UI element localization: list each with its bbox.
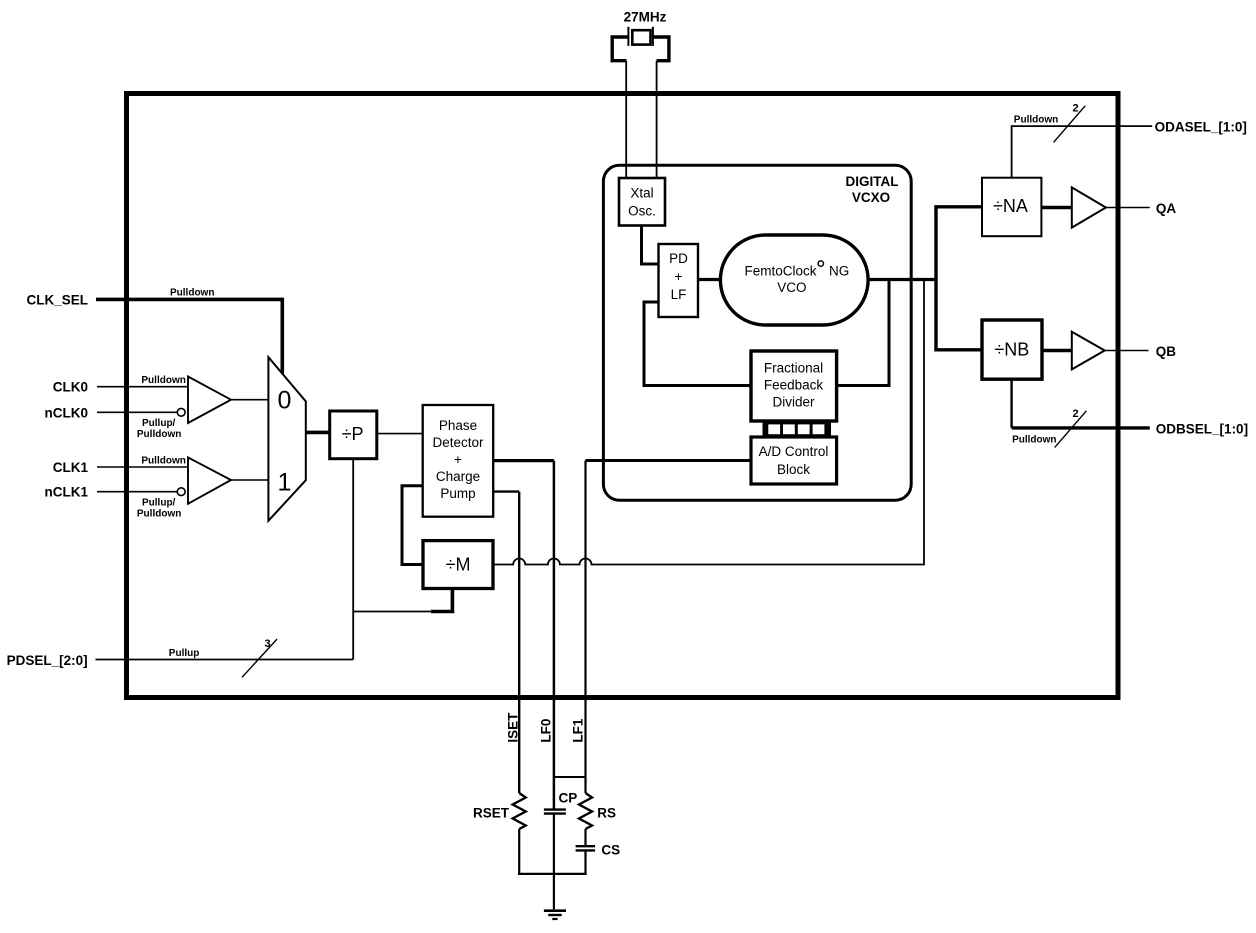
svg-text:÷NB: ÷NB [994,340,1029,360]
wire nCLK1 [97,491,177,493]
svg-text:nCLK0: nCLK0 [45,405,89,420]
svg-text:PDSEL_[2:0]: PDSEL_[2:0] [7,653,88,668]
wire CS to bottom [584,850,586,875]
wire LF0 to LF1 join [554,776,586,778]
wire phase detector to divider M loop [402,486,423,565]
svg-text:Pullup/: Pullup/ [142,418,176,429]
wire RS to CS [584,829,586,846]
wire divider P to phase detector [377,433,423,435]
svg-text:1: 1 [278,469,292,497]
DIGITAL VCXO region box [603,165,911,500]
svg-text:ODASEL_[1:0]: ODASEL_[1:0] [1155,120,1247,135]
wire divider NA to buffer QA [1041,206,1071,209]
wire ISET vertical [518,492,520,793]
svg-text:QB: QB [1156,344,1177,359]
svg-text:Phase: Phase [439,418,477,433]
svg-text:+: + [675,269,683,284]
wire nCLK0 [97,411,177,413]
svg-text:0: 0 [278,387,292,415]
buffer input 1 triangle [188,457,231,503]
wire crystal right leg to Xtal Osc [656,61,658,178]
svg-text:LF0: LF0 [539,719,554,743]
chip boundary box [127,94,1119,698]
svg-text:Pulldown: Pulldown [141,456,185,467]
divider M box [423,541,493,589]
wire PDSEL branch to divider M [353,611,431,613]
wire divider P down to PDSEL [352,459,354,660]
divider NA box [982,178,1041,237]
bus slash ODASEL 2 [1054,106,1086,143]
svg-text:ODBSEL_[1:0]: ODBSEL_[1:0] [1156,422,1248,437]
wire CLK0 [97,386,188,388]
svg-text:3: 3 [265,638,271,650]
svg-text:÷M: ÷M [446,555,471,575]
wire divider M output with hops to VCO line [493,280,924,565]
wire LF0 vertical upper [553,461,556,809]
buffer QB triangle [1072,332,1105,370]
wire PDSEL [96,659,354,661]
svg-text:QA: QA [1156,201,1177,216]
wire mux to divider P [306,431,330,435]
wire feedback from VCO line down to divider [837,280,889,386]
wire LF1 vertical [584,461,586,794]
capacitor CS [576,845,596,847]
wire phase detector out to LF0 [493,459,554,462]
svg-text:Fractional: Fractional [764,361,823,376]
bus slash ODBSEL 2 [1055,411,1087,448]
wire bottom join [518,873,587,875]
mux trapezoid [268,357,305,521]
svg-text:+: + [454,452,462,467]
svg-text:Pulldown: Pulldown [137,429,181,440]
svg-text:Pump: Pump [440,486,475,501]
svg-text:Charge: Charge [436,469,480,484]
svg-text:RS: RS [597,806,616,821]
buffer QA triangle [1072,187,1106,227]
svg-text:LF: LF [671,287,687,302]
svg-text:2: 2 [1073,103,1079,115]
svg-text:Pulldown: Pulldown [141,375,185,386]
svg-text:Feedback: Feedback [764,378,824,393]
resistor RSET [513,793,526,829]
svg-text:Divider: Divider [772,395,815,410]
ground symbol [544,909,566,912]
wire ODBSEL [1012,426,1150,429]
wire crystal left loop [612,37,628,61]
crystal Y1 right plate [652,27,654,46]
svg-text:RSET: RSET [473,806,510,821]
wire branch to divider NA [934,205,982,208]
wire divider NB to ODBSEL [1010,379,1012,428]
svg-text:Pulldown: Pulldown [170,288,214,299]
svg-text:DIGITAL: DIGITAL [846,174,899,189]
wire buffer to QB pin [1105,350,1149,352]
block U3 FemtoClock NG VCO capsule [720,235,868,325]
wire CLK1 [97,466,188,468]
wire buffer0 to mux [231,399,268,401]
svg-text:÷NA: ÷NA [993,196,1028,216]
svg-text:CLK0: CLK0 [53,380,88,395]
svg-text:÷P: ÷P [342,424,364,444]
svg-text:Pullup/: Pullup/ [142,498,176,509]
wire PD+LF to VCO [698,278,720,281]
wire VCO output to right branch [868,278,938,281]
capacitor CP [544,808,566,810]
resistor RS [579,793,592,829]
svg-text:VCO: VCO [777,280,806,295]
wire ODASEL to divider NA [1012,126,1153,178]
wire divider to PD+LF loop [644,302,751,386]
svg-text:Block: Block [777,462,810,477]
svg-text:PD: PD [669,251,688,266]
wire divider NB to buffer QB [1042,349,1072,352]
wire LF0 vertical lower [553,814,555,910]
svg-text:Pulldown: Pulldown [137,509,181,520]
svg-text:VCXO: VCXO [852,190,890,205]
wire crystal left leg to Xtal Osc [625,61,627,178]
svg-text:nCLK1: nCLK1 [45,485,89,500]
bus Fractional Feedback Divider to A/D Control Block [763,420,832,439]
svg-text:27MHz: 27MHz [624,10,667,25]
svg-text:CP: CP [559,791,578,806]
wire branch to divider NB [934,348,982,351]
svg-text:CLK1: CLK1 [53,460,89,475]
bus slash PDSEL 3 [242,639,277,677]
bubble nCLK1 [177,488,185,496]
buffer input 0 triangle [188,377,231,424]
crystal Y1 left plate [627,27,629,46]
block U5 A/D Control Block [751,437,837,484]
wire LF1 to A/D Control Block [586,459,752,462]
block U4 Fractional Feedback Divider [751,351,837,421]
block U2 PD + LF [659,244,699,317]
svg-text:Detector: Detector [432,435,484,450]
svg-text:Xtal: Xtal [630,186,653,201]
svg-text:2: 2 [1073,408,1079,420]
divider P box [330,411,377,459]
wire Xtal Osc to PD+LF [642,226,659,265]
svg-text:Osc.: Osc. [628,204,656,219]
svg-text:LF1: LF1 [570,718,585,742]
wire CLK_SEL to mux select [96,299,282,376]
svg-text:NG: NG [829,263,849,278]
divider NB box [982,320,1042,379]
svg-text:CLK_SEL: CLK_SEL [26,293,88,308]
block U6 Phase Detector + Charge Pump [423,405,494,517]
wire output branch vertical [934,207,937,350]
wire buffer1 to mux [231,479,268,481]
svg-text:A/D Control: A/D Control [759,444,829,459]
svg-text:ISET: ISET [506,712,521,743]
bubble nCLK0 [177,408,185,416]
wire buffer to QA pin [1106,207,1150,209]
svg-text:Pulldown: Pulldown [1012,435,1056,446]
wire charge pump out to ISET [493,490,519,492]
svg-text:Pulldown: Pulldown [1014,115,1058,126]
crystal Y1 body [632,30,650,44]
svg-text:CS: CS [601,843,620,858]
wire crystal right loop [653,37,669,61]
svg-text:Pullup: Pullup [169,648,200,659]
svg-text:FemtoClock: FemtoClock [745,263,817,278]
block U1 Xtal Osc [619,178,665,226]
wire RSET to bottom [518,829,520,875]
